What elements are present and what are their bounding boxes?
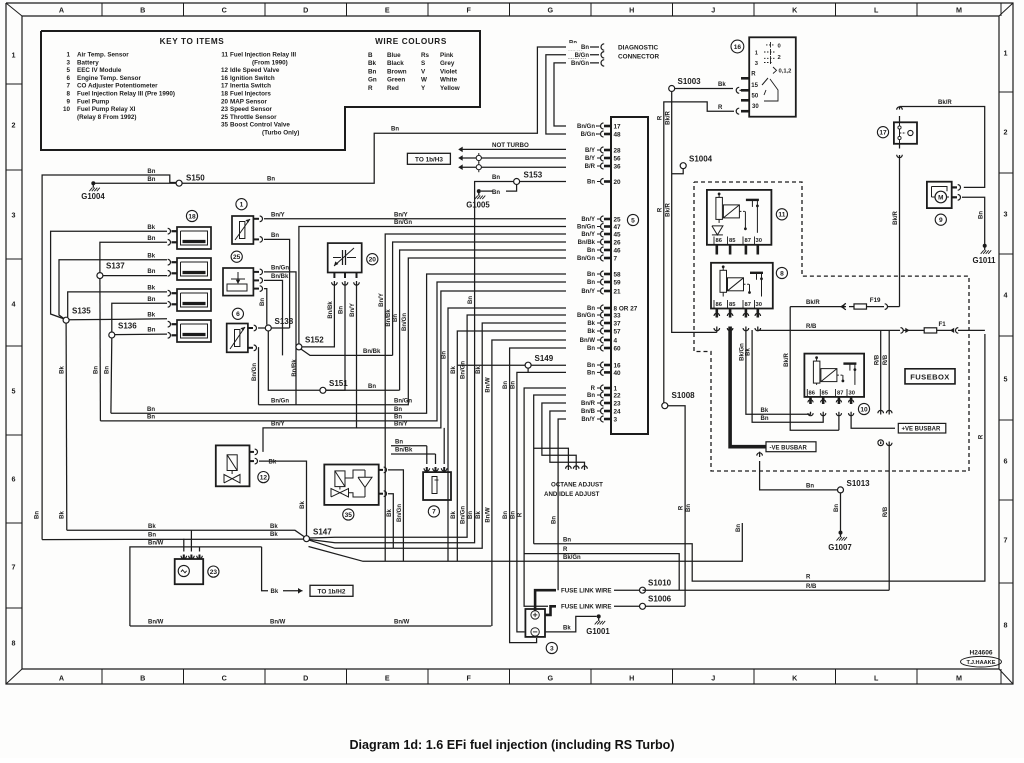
svg-text:S152: S152 — [305, 336, 324, 345]
wire Bk/R S1003 down to S1004 — [672, 92, 717, 333]
air temp sensor circled 1 — [236, 199, 247, 210]
battery box — [525, 609, 545, 637]
wire Bn/Gn row R1 to EEC pin7 — [259, 258, 597, 405]
svg-text:Bk/R: Bk/R — [784, 352, 790, 366]
EEC pin 1 (R) — [597, 387, 601, 389]
EEC pin wire labels — [566, 122, 596, 130]
svg-text:E: E — [385, 674, 390, 683]
ground G1011 — [983, 244, 987, 248]
svg-text:S1010: S1010 — [648, 579, 672, 588]
svg-text:18: 18 — [221, 91, 229, 98]
svg-text:EEC IV Module: EEC IV Module — [77, 67, 122, 74]
svg-text:Bk/R: Bk/R — [893, 210, 899, 224]
svg-text:85: 85 — [729, 302, 736, 308]
-VE busbar label box — [766, 442, 816, 452]
svg-text:Bn/Gn: Bn/Gn — [577, 313, 595, 319]
inertia switch top connector — [899, 116, 901, 122]
svg-text:20: 20 — [614, 179, 622, 186]
svg-text:86: 86 — [809, 391, 816, 397]
svg-text:S136: S136 — [118, 321, 137, 330]
svg-text:5: 5 — [12, 387, 16, 396]
svg-text:25: 25 — [233, 254, 241, 261]
EEC pin 22 (Bn) — [597, 394, 601, 396]
svg-text:11: 11 — [778, 212, 785, 219]
wire Bk/R inertia to fuel pump — [900, 107, 985, 188]
wire Bn EEC pin 8OR27 L — [448, 308, 596, 561]
CO adjuster box — [423, 472, 451, 500]
svg-text:Bk: Bk — [587, 321, 595, 327]
svg-text:18: 18 — [188, 213, 196, 220]
wire Bn/Gn EEC pin33 to S147 ray — [310, 315, 596, 538]
wire Bn sensor1 down to S138 row — [264, 239, 290, 328]
svg-text:Bn/Gn: Bn/Gn — [394, 398, 412, 404]
svg-text:6: 6 — [12, 475, 16, 484]
wire Bn/Bk EEC pin26 riser — [393, 242, 596, 355]
wire R/B bottom row — [643, 589, 890, 591]
wire Bn S150 to diagnostic connector — [182, 47, 599, 183]
svg-text:1: 1 — [240, 202, 244, 209]
svg-text:Bn: Bn — [147, 415, 155, 421]
svg-text:Bn/W: Bn/W — [270, 620, 286, 626]
wire Bn EEC pin46 riser from S151 row — [400, 250, 596, 390]
relay 11 (fuel injection relay pre-1990) box — [707, 190, 772, 245]
svg-text:7: 7 — [432, 509, 436, 516]
idle speed valve box — [216, 445, 250, 486]
CO adjuster potentiometer circled 7 — [428, 506, 439, 517]
svg-text:DIAGNOSTIC: DIAGNOSTIC — [618, 45, 659, 52]
svg-text:Bn: Bn — [391, 127, 399, 133]
EEC IV module circled 5 — [627, 214, 638, 225]
wire Bn S137 down to row R3 — [99, 279, 102, 421]
svg-text:2: 2 — [1004, 128, 1008, 137]
CO adjuster pins — [426, 467, 428, 472]
svg-text:Bn/W: Bn/W — [148, 541, 164, 547]
svg-text:20: 20 — [369, 257, 377, 264]
wire Bn/W EEC pin4 L — [492, 340, 596, 626]
svg-text:Bn: Bn — [492, 175, 500, 181]
relay 10 (fuel pump relay) box — [804, 354, 864, 397]
svg-text:B/Y: B/Y — [585, 148, 595, 154]
ignition switch position markings — [766, 44, 775, 46]
svg-text:1: 1 — [1004, 49, 1008, 58]
T.J.HAAKE stamp — [961, 656, 1002, 667]
speed sensor box — [175, 559, 204, 584]
svg-text:30: 30 — [756, 302, 762, 308]
svg-text:Bn/W: Bn/W — [486, 507, 492, 523]
svg-text:Gn: Gn — [368, 77, 377, 84]
wire S1004 jog to Bk/R vertical — [672, 169, 684, 174]
wire relay8 pin86 from S1004 — [716, 327, 718, 333]
relay 8 (fuel injection relay) box — [711, 263, 773, 309]
svg-text:G: G — [547, 6, 553, 15]
svg-text:M: M — [938, 195, 943, 202]
svg-text:30: 30 — [756, 238, 762, 244]
svg-text:Bk: Bk — [147, 286, 155, 292]
svg-text:37: 37 — [614, 320, 622, 327]
relay 8 circled 8 — [776, 267, 787, 278]
svg-text:Bn/Bk: Bn/Bk — [363, 349, 381, 355]
EEC pin 8 OR 27 (Bn) — [597, 307, 601, 309]
svg-text:Diagram 1d: 1.6 EFi fuel injec: Diagram 1d: 1.6 EFi fuel injection (incl… — [349, 738, 674, 752]
svg-text:Bn: Bn — [147, 407, 155, 413]
fuel pump circled 9 — [935, 214, 946, 225]
svg-text:OCTANE ADJUST: OCTANE ADJUST — [551, 482, 603, 489]
relay 10 pin stubs and connectors — [809, 397, 812, 404]
wire Bn S1013 to G1007 — [840, 493, 842, 531]
splice S1006 — [640, 603, 646, 609]
wire -VE busbar thick from relay8 pin85 — [730, 327, 766, 447]
svg-text:48: 48 — [614, 131, 622, 138]
wire Bn/W bottom row — [130, 625, 491, 627]
wire Bn row from left rail to S147 — [42, 538, 303, 541]
svg-text:Bn/Gn: Bn/Gn — [461, 361, 467, 379]
wire Bn/Y EEC pin45 L — [385, 234, 596, 561]
svg-text:Bn/Gn: Bn/Gn — [402, 313, 408, 331]
relay 8 (fuel injection relay) contact — [728, 278, 744, 291]
svg-text:M: M — [956, 6, 962, 15]
svg-text:Bn: Bn — [503, 511, 509, 519]
svg-text:Fuel Pump Relay XI: Fuel Pump Relay XI — [77, 106, 136, 113]
wire Bk EEC pin37 to S147 ray — [309, 323, 596, 548]
wire Bk battery minus to G1001 — [545, 616, 597, 632]
svg-text:15: 15 — [751, 83, 758, 89]
svg-text:4: 4 — [1004, 291, 1008, 300]
wire R ignition 30 jog — [664, 102, 734, 403]
EEC pin 37 (Bk) — [597, 322, 601, 324]
svg-text:Bk/R: Bk/R — [665, 202, 671, 216]
wire Bn EEC pin16 S149 — [457, 364, 525, 366]
wire B/R pin36 to TO 1b/H3 — [462, 166, 596, 168]
MAP sensor pins — [333, 273, 335, 279]
wire fuse link battery plus up — [535, 590, 556, 611]
svg-text:Bk: Bk — [476, 511, 482, 519]
svg-text:Bn: Bn — [552, 516, 558, 524]
wire Bn/Bk S152 to EEC pin26 riser — [301, 349, 392, 355]
splice S136 — [109, 332, 115, 338]
svg-text:Bn/Gn: Bn/Gn — [461, 506, 467, 524]
air temp sensor box — [232, 216, 253, 244]
boost control valve circled 35 — [343, 509, 354, 520]
boost control valve box — [324, 465, 378, 505]
svg-text:3: 3 — [614, 416, 618, 423]
wire Bk injector3 — [68, 292, 167, 317]
splice S147 — [304, 536, 310, 542]
svg-text:4: 4 — [614, 337, 618, 344]
svg-text:L: L — [874, 6, 879, 15]
svg-text:57: 57 — [614, 328, 622, 335]
svg-text:Bn: Bn — [587, 363, 595, 369]
svg-text:S137: S137 — [106, 262, 125, 271]
svg-text:23: 23 — [614, 400, 622, 407]
svg-text:9: 9 — [66, 98, 70, 105]
svg-text:Bn/Gn: Bn/Gn — [577, 124, 595, 130]
wire Bk relay8 pin30b down — [752, 330, 757, 422]
svg-text:(From 1990): (From 1990) — [252, 59, 288, 66]
svg-text:Bn/Gn: Bn/Gn — [252, 363, 258, 381]
splice S152 — [296, 344, 302, 350]
svg-text:Rs: Rs — [421, 52, 430, 59]
svg-text:Bk: Bk — [451, 511, 457, 519]
splice S1013 — [838, 487, 844, 493]
svg-text:R: R — [751, 71, 756, 77]
svg-text:G1005: G1005 — [466, 201, 490, 210]
svg-text:Boost Control Valve: Boost Control Valve — [230, 122, 290, 129]
svg-text:S135: S135 — [72, 307, 91, 316]
svg-text:FUSE LINK WIRE: FUSE LINK WIRE — [561, 604, 612, 611]
svg-text:Bn: Bn — [587, 180, 595, 186]
fuel injector 2 box — [177, 258, 211, 280]
svg-text:Bn: Bn — [587, 280, 595, 286]
svg-text:R/B: R/B — [883, 506, 889, 517]
svg-text:3: 3 — [550, 645, 554, 652]
svg-text:60: 60 — [614, 345, 622, 352]
wire R S1008 to fuse link S1006 — [668, 406, 685, 607]
fuel injectors circled 18 — [186, 210, 197, 221]
svg-text:8: 8 — [66, 91, 70, 98]
svg-text:FUSE LINK WIRE: FUSE LINK WIRE — [561, 588, 612, 595]
wire Bn/R EEC pin23 octane — [542, 403, 596, 470]
svg-text:Bk: Bk — [300, 501, 306, 509]
splice S1003 — [669, 86, 675, 92]
wire Bk injector4 — [69, 319, 167, 320]
svg-text:Bn/Y: Bn/Y — [581, 289, 595, 295]
relay 11 (fuel injection relay pre-1990) diode — [712, 226, 723, 235]
wire Bk/Gn relay8 pin87 down — [746, 327, 757, 415]
dashed pre-1990 relay and fusebox outline — [694, 182, 969, 471]
splice S150 — [176, 180, 182, 186]
svg-text:S147: S147 — [313, 528, 332, 537]
inertia switch circled 17 — [877, 127, 888, 138]
svg-text:Bn: Bn — [394, 415, 402, 421]
svg-text:Bn: Bn — [147, 328, 155, 334]
svg-text:Bn/Gn: Bn/Gn — [271, 266, 289, 272]
wire Bn sensor6 to S138 — [258, 327, 265, 329]
octane adjust connector hooks — [566, 466, 572, 469]
splice S1004 — [680, 163, 686, 169]
EEC pin 59 (Bn) — [597, 281, 601, 283]
wire Bn row R2 to EEC pin58 — [111, 274, 596, 413]
svg-text:7: 7 — [66, 83, 70, 90]
svg-text:K: K — [792, 6, 798, 15]
svg-text:Bn: Bn — [587, 272, 595, 278]
ground G1007 — [839, 531, 843, 535]
svg-text:2: 2 — [12, 121, 16, 130]
fuel injector 1 box — [177, 227, 211, 249]
battery circled 3 — [546, 642, 557, 653]
wire Bn/Gn throttle to row R1 — [264, 272, 296, 405]
relay 11 circled 11 — [776, 209, 787, 220]
wire Bn row R3 to EEC pin59 — [100, 282, 596, 421]
wire R EEC pin1 to battery plus — [524, 388, 596, 606]
svg-text:B: B — [140, 6, 145, 15]
svg-text:B/Gn: B/Gn — [581, 132, 596, 138]
svg-text:Bn: Bn — [267, 177, 275, 183]
svg-text:Bn: Bn — [806, 484, 814, 490]
svg-text:Violet: Violet — [440, 68, 458, 75]
svg-text:Green: Green — [387, 77, 405, 84]
svg-text:H: H — [629, 674, 634, 683]
svg-text:Bn/Y: Bn/Y — [394, 422, 408, 428]
svg-text:Bk: Bk — [60, 511, 66, 519]
svg-text:17: 17 — [221, 83, 229, 90]
svg-text:Bn/Y: Bn/Y — [271, 422, 285, 428]
svg-text:Bn: Bn — [395, 439, 403, 445]
speed sensor pins — [183, 555, 185, 560]
wire fuse link battery plus elbow — [545, 606, 556, 615]
diagnostic connector hooks — [601, 44, 604, 50]
svg-text:59: 59 — [614, 279, 622, 286]
svg-text:Grey: Grey — [440, 60, 455, 67]
wire Bk to relay10 pin86 — [757, 412, 811, 414]
wire Bk speed sensor pin2 — [190, 530, 192, 551]
wire Bn fuel pump to G1011 — [962, 197, 985, 244]
EEC pin 25 (Bn/Y) — [597, 218, 601, 220]
svg-text:Bk: Bk — [270, 532, 278, 538]
svg-text:5: 5 — [66, 67, 70, 74]
idle speed valve pins — [250, 451, 255, 453]
engine temp sensor pins — [248, 327, 253, 329]
wire Bn/Bk MAP pin1 to S152 — [302, 281, 334, 347]
svg-text:Bn: Bn — [147, 269, 155, 275]
svg-text:Yellow: Yellow — [440, 85, 460, 92]
splice S138 — [265, 325, 271, 331]
svg-text:Bn: Bn — [105, 366, 111, 374]
svg-text:16: 16 — [221, 75, 229, 82]
svg-text:Bn: Bn — [147, 236, 155, 242]
fuel pump box — [927, 182, 952, 208]
svg-text:Bn: Bn — [834, 504, 840, 512]
svg-text:Bn: Bn — [271, 233, 279, 239]
svg-text:R/B: R/B — [883, 354, 889, 365]
svg-text:85: 85 — [729, 238, 736, 244]
svg-text:H: H — [629, 6, 634, 15]
svg-text:Bn: Bn — [148, 533, 156, 539]
svg-text:T.J.HAAKE: T.J.HAAKE — [967, 660, 996, 666]
relay 10 circled 10 — [858, 403, 869, 414]
svg-text:Bn: Bn — [368, 68, 377, 75]
svg-text:50: 50 — [752, 93, 759, 99]
wire Bn S153 to G1005 — [506, 185, 517, 191]
svg-text:Bk: Bk — [269, 460, 277, 466]
svg-text:6: 6 — [66, 75, 70, 82]
wire Bk S135 down — [65, 323, 68, 530]
svg-text:Fuel Injection Relay III (Pre: Fuel Injection Relay III (Pre 1990) — [77, 91, 175, 98]
ground G1001 — [597, 614, 601, 618]
wire Bk S147 to TO 1b/H2 — [262, 547, 268, 591]
svg-text:B: B — [368, 52, 373, 59]
svg-text:33: 33 — [614, 312, 622, 319]
svg-text:8: 8 — [1004, 621, 1008, 630]
svg-text:FUSEBOX: FUSEBOX — [910, 373, 950, 382]
svg-text:Bk: Bk — [476, 366, 482, 374]
svg-text:Engine Temp. Sensor: Engine Temp. Sensor — [77, 75, 141, 82]
svg-text:Bk: Bk — [270, 524, 278, 530]
svg-text:M: M — [956, 674, 962, 683]
svg-text:Bn: Bn — [736, 524, 742, 532]
svg-text:Bn/Gn: Bn/Gn — [397, 504, 403, 522]
svg-text:S149: S149 — [535, 354, 554, 363]
EEC pin 16 (Bn) — [597, 364, 601, 366]
svg-text:Bk: Bk — [148, 524, 156, 530]
svg-text:R: R — [657, 115, 663, 120]
svg-text:10: 10 — [63, 106, 71, 113]
svg-text:0,1,2: 0,1,2 — [779, 69, 792, 75]
svg-text:CO Adjuster Potentiometer: CO Adjuster Potentiometer — [77, 83, 158, 90]
svg-text:6: 6 — [1004, 457, 1008, 466]
svg-text:Bn: Bn — [368, 384, 376, 390]
wire Bn EEC pin60 L to battery bottom — [510, 348, 596, 643]
svg-text:S150: S150 — [186, 174, 205, 183]
wire relay10 pin30 to +VE busbar — [851, 412, 895, 428]
svg-text:Bn/Gn: Bn/Gn — [271, 398, 289, 404]
splice S149 — [525, 362, 531, 368]
svg-text:1: 1 — [66, 52, 70, 59]
svg-text:Bn: Bn — [587, 248, 595, 254]
EEC pin 24 (Bn/B) — [597, 410, 601, 412]
svg-text:S: S — [421, 60, 425, 67]
svg-text:D: D — [303, 674, 308, 683]
wire Bk S1003 to ignition 15 — [675, 88, 733, 90]
svg-text:26: 26 — [614, 239, 622, 246]
svg-text:23: 23 — [221, 106, 229, 113]
relay 8 (fuel injection relay) coil — [720, 270, 727, 292]
wire Bn S151 row right — [326, 389, 400, 391]
svg-text:8 OR 27: 8 OR 27 — [614, 305, 638, 312]
svg-text:Bn: Bn — [147, 169, 155, 175]
svg-text:Fuel Pump: Fuel Pump — [77, 98, 109, 105]
wire Bk row from S135 to S147 — [67, 530, 304, 536]
wire Bn/B EEC pin24 octane — [550, 411, 596, 470]
svg-text:Bn/Bk: Bn/Bk — [386, 309, 392, 327]
fuel injector 3 pins — [172, 292, 178, 294]
wire Bk injector1 — [51, 231, 167, 318]
engine temp sensor box — [227, 324, 248, 353]
svg-text:3: 3 — [66, 59, 70, 66]
wire R/B relay8 pin30 row to F1 — [758, 327, 900, 331]
wire Bk boost valve bottom — [388, 494, 393, 549]
EEC pin 23 (Bn/R) — [597, 402, 601, 404]
wire Bn/Y sensor1 to EEC pin 25 — [264, 218, 596, 220]
svg-text:Bn: Bn — [563, 537, 571, 543]
svg-text:Bn/Gn: Bn/Gn — [394, 220, 412, 226]
svg-text:S1003: S1003 — [678, 77, 702, 86]
wire B/Y pin28 NOT TURBO arrow — [462, 148, 596, 150]
svg-text:Bk/R: Bk/R — [806, 300, 820, 306]
EEC pin 7 (Bn/Gn) — [597, 257, 601, 259]
svg-text:+VE BUSBAR: +VE BUSBAR — [902, 427, 942, 433]
engine temp sensor circled 6 — [232, 308, 243, 319]
svg-text:G: G — [547, 674, 553, 683]
svg-text:R: R — [679, 505, 685, 510]
wire Bk/R vertical to relay10 pin87 — [790, 307, 839, 431]
svg-text:8: 8 — [12, 639, 16, 648]
svg-text:Bk/R: Bk/R — [938, 100, 952, 106]
EEC IV module U5 box — [611, 117, 648, 434]
svg-text:47: 47 — [614, 224, 622, 231]
EEC pin 26 (Bn/Bk) — [597, 241, 601, 243]
wire Bn injector1 — [100, 242, 167, 272]
svg-text:K: K — [792, 674, 798, 683]
svg-text:Bk: Bk — [718, 82, 726, 88]
svg-text:E: E — [385, 6, 390, 15]
wire Bn injector2 — [103, 275, 167, 277]
wire Bn left rail top — [42, 175, 176, 540]
svg-text:A: A — [59, 674, 64, 683]
svg-text:Bn/Bk: Bn/Bk — [271, 274, 289, 280]
air temp sensor pins — [253, 218, 259, 220]
svg-text:Bn: Bn — [581, 45, 589, 51]
svg-text:86: 86 — [716, 302, 723, 308]
